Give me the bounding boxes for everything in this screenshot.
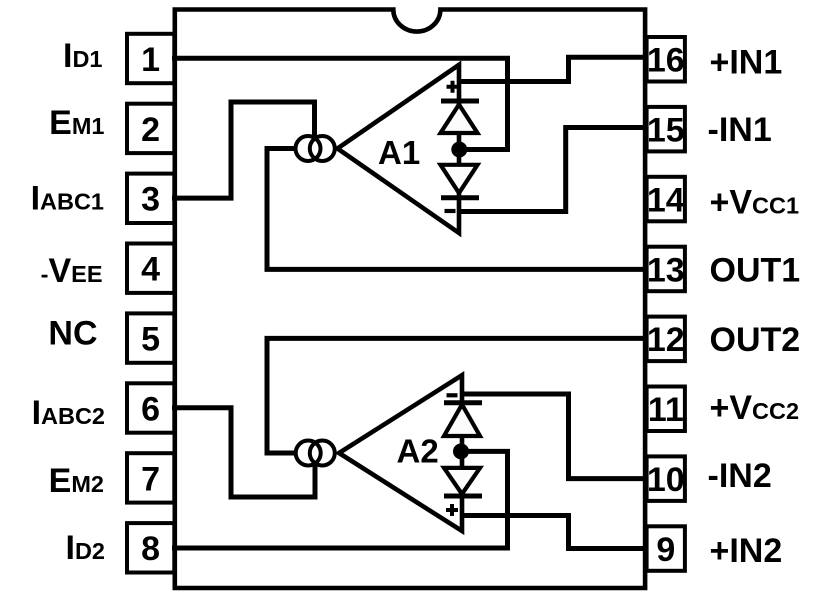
svg-text:11: 11: [648, 391, 684, 429]
svg-text:4: 4: [141, 251, 160, 289]
A1 diode D2 cathode bar: [441, 195, 479, 200]
A1 diode junction node dot: [451, 142, 467, 158]
pin 1 box: [127, 34, 174, 83]
pin 6 box: [127, 383, 174, 432]
wire pin8 ID2 to diode junction of A2: [172, 451, 508, 548]
A1 diode D1 (pointing up): [441, 105, 478, 134]
pin 14 box: [647, 177, 685, 222]
pin 11 box: [647, 387, 685, 432]
svg-text:NC: NC: [48, 315, 97, 353]
wire OUT2 pin12 to A2 current source left: [267, 338, 647, 453]
svg-text:A1: A1: [378, 134, 420, 171]
A2 diode D3 (pointing up): [444, 405, 480, 437]
svg-text:12: 12: [647, 321, 685, 359]
pin 16 box: [647, 37, 685, 82]
op-amp A2 triangle: [339, 375, 462, 531]
svg-text:6: 6: [141, 390, 160, 428]
wire OUT1 pin13 to A1 current source left: [267, 149, 647, 270]
svg-text:9: 9: [656, 531, 675, 569]
A2 current source circle left: [296, 441, 321, 466]
svg-text:10: 10: [647, 461, 685, 499]
A2 diode D4 cathode bar: [444, 494, 482, 499]
pin 3 box: [127, 174, 174, 223]
svg-text:-IN2: -IN2: [708, 457, 772, 495]
pin 8 box: [127, 523, 174, 572]
A2 current source circle right: [310, 441, 335, 466]
pin 4 box: [127, 244, 174, 293]
A1 + input mark: [447, 81, 459, 93]
svg-text:+IN2: +IN2: [710, 532, 783, 570]
A1 current source circle left: [296, 136, 321, 161]
wire -IN2 pin10 to A2 - input: [462, 394, 647, 479]
A2 diode D3 anode bar: [444, 400, 482, 405]
pin 10 box: [647, 456, 685, 501]
svg-text:A2: A2: [397, 432, 439, 469]
A2 diode D4 (pointing down): [444, 468, 480, 494]
wire +IN1 pin16 to A1 + input: [459, 57, 647, 81]
IC body outline U1 (16-pin DIP) with index notch: [175, 10, 645, 589]
A1 current source circle right: [310, 136, 335, 161]
svg-text:3: 3: [141, 181, 160, 219]
A1 diode D1 cathode bar: [441, 99, 479, 104]
op-amp A1 triangle: [338, 65, 460, 233]
pin 5 box: [127, 313, 174, 362]
A2 diode junction node dot: [453, 443, 469, 459]
svg-text:13: 13: [647, 251, 685, 289]
pin 7 box: [127, 453, 174, 502]
wire IABC1 pin3 to A1 current source: [172, 102, 315, 198]
svg-text:+IN1: +IN1: [710, 43, 783, 81]
svg-text:7: 7: [141, 460, 160, 498]
svg-text:15: 15: [647, 112, 685, 150]
svg-text:14: 14: [647, 181, 685, 219]
pin 12 box: [647, 317, 685, 362]
svg-text:8: 8: [141, 530, 160, 568]
pin 2 box: [127, 104, 174, 153]
pin 15 box: [647, 107, 685, 151]
svg-text:OUT2: OUT2: [710, 321, 801, 359]
svg-text:OUT1: OUT1: [710, 251, 801, 289]
svg-text:5: 5: [141, 321, 160, 359]
pin 13 box: [647, 247, 685, 292]
A1 - input mark: [445, 209, 456, 213]
svg-text:2: 2: [141, 111, 160, 149]
pin 9 box: [647, 526, 685, 571]
wire +IN2 pin9 to A2 + input: [462, 516, 647, 549]
svg-text:1: 1: [141, 41, 160, 79]
svg-text:-IN1: -IN1: [708, 111, 772, 149]
wire IABC2 pin6 to A2 current source: [172, 408, 315, 497]
A1 diode D2 (pointing down): [441, 165, 478, 193]
svg-text:16: 16: [647, 42, 685, 80]
wire -IN1 pin15 to A1 - input: [459, 128, 647, 212]
A2 - input mark: [447, 393, 458, 397]
wire pin1 ID1 to diode junction of A1: [172, 58, 508, 149]
A2 + input mark: [446, 504, 458, 516]
